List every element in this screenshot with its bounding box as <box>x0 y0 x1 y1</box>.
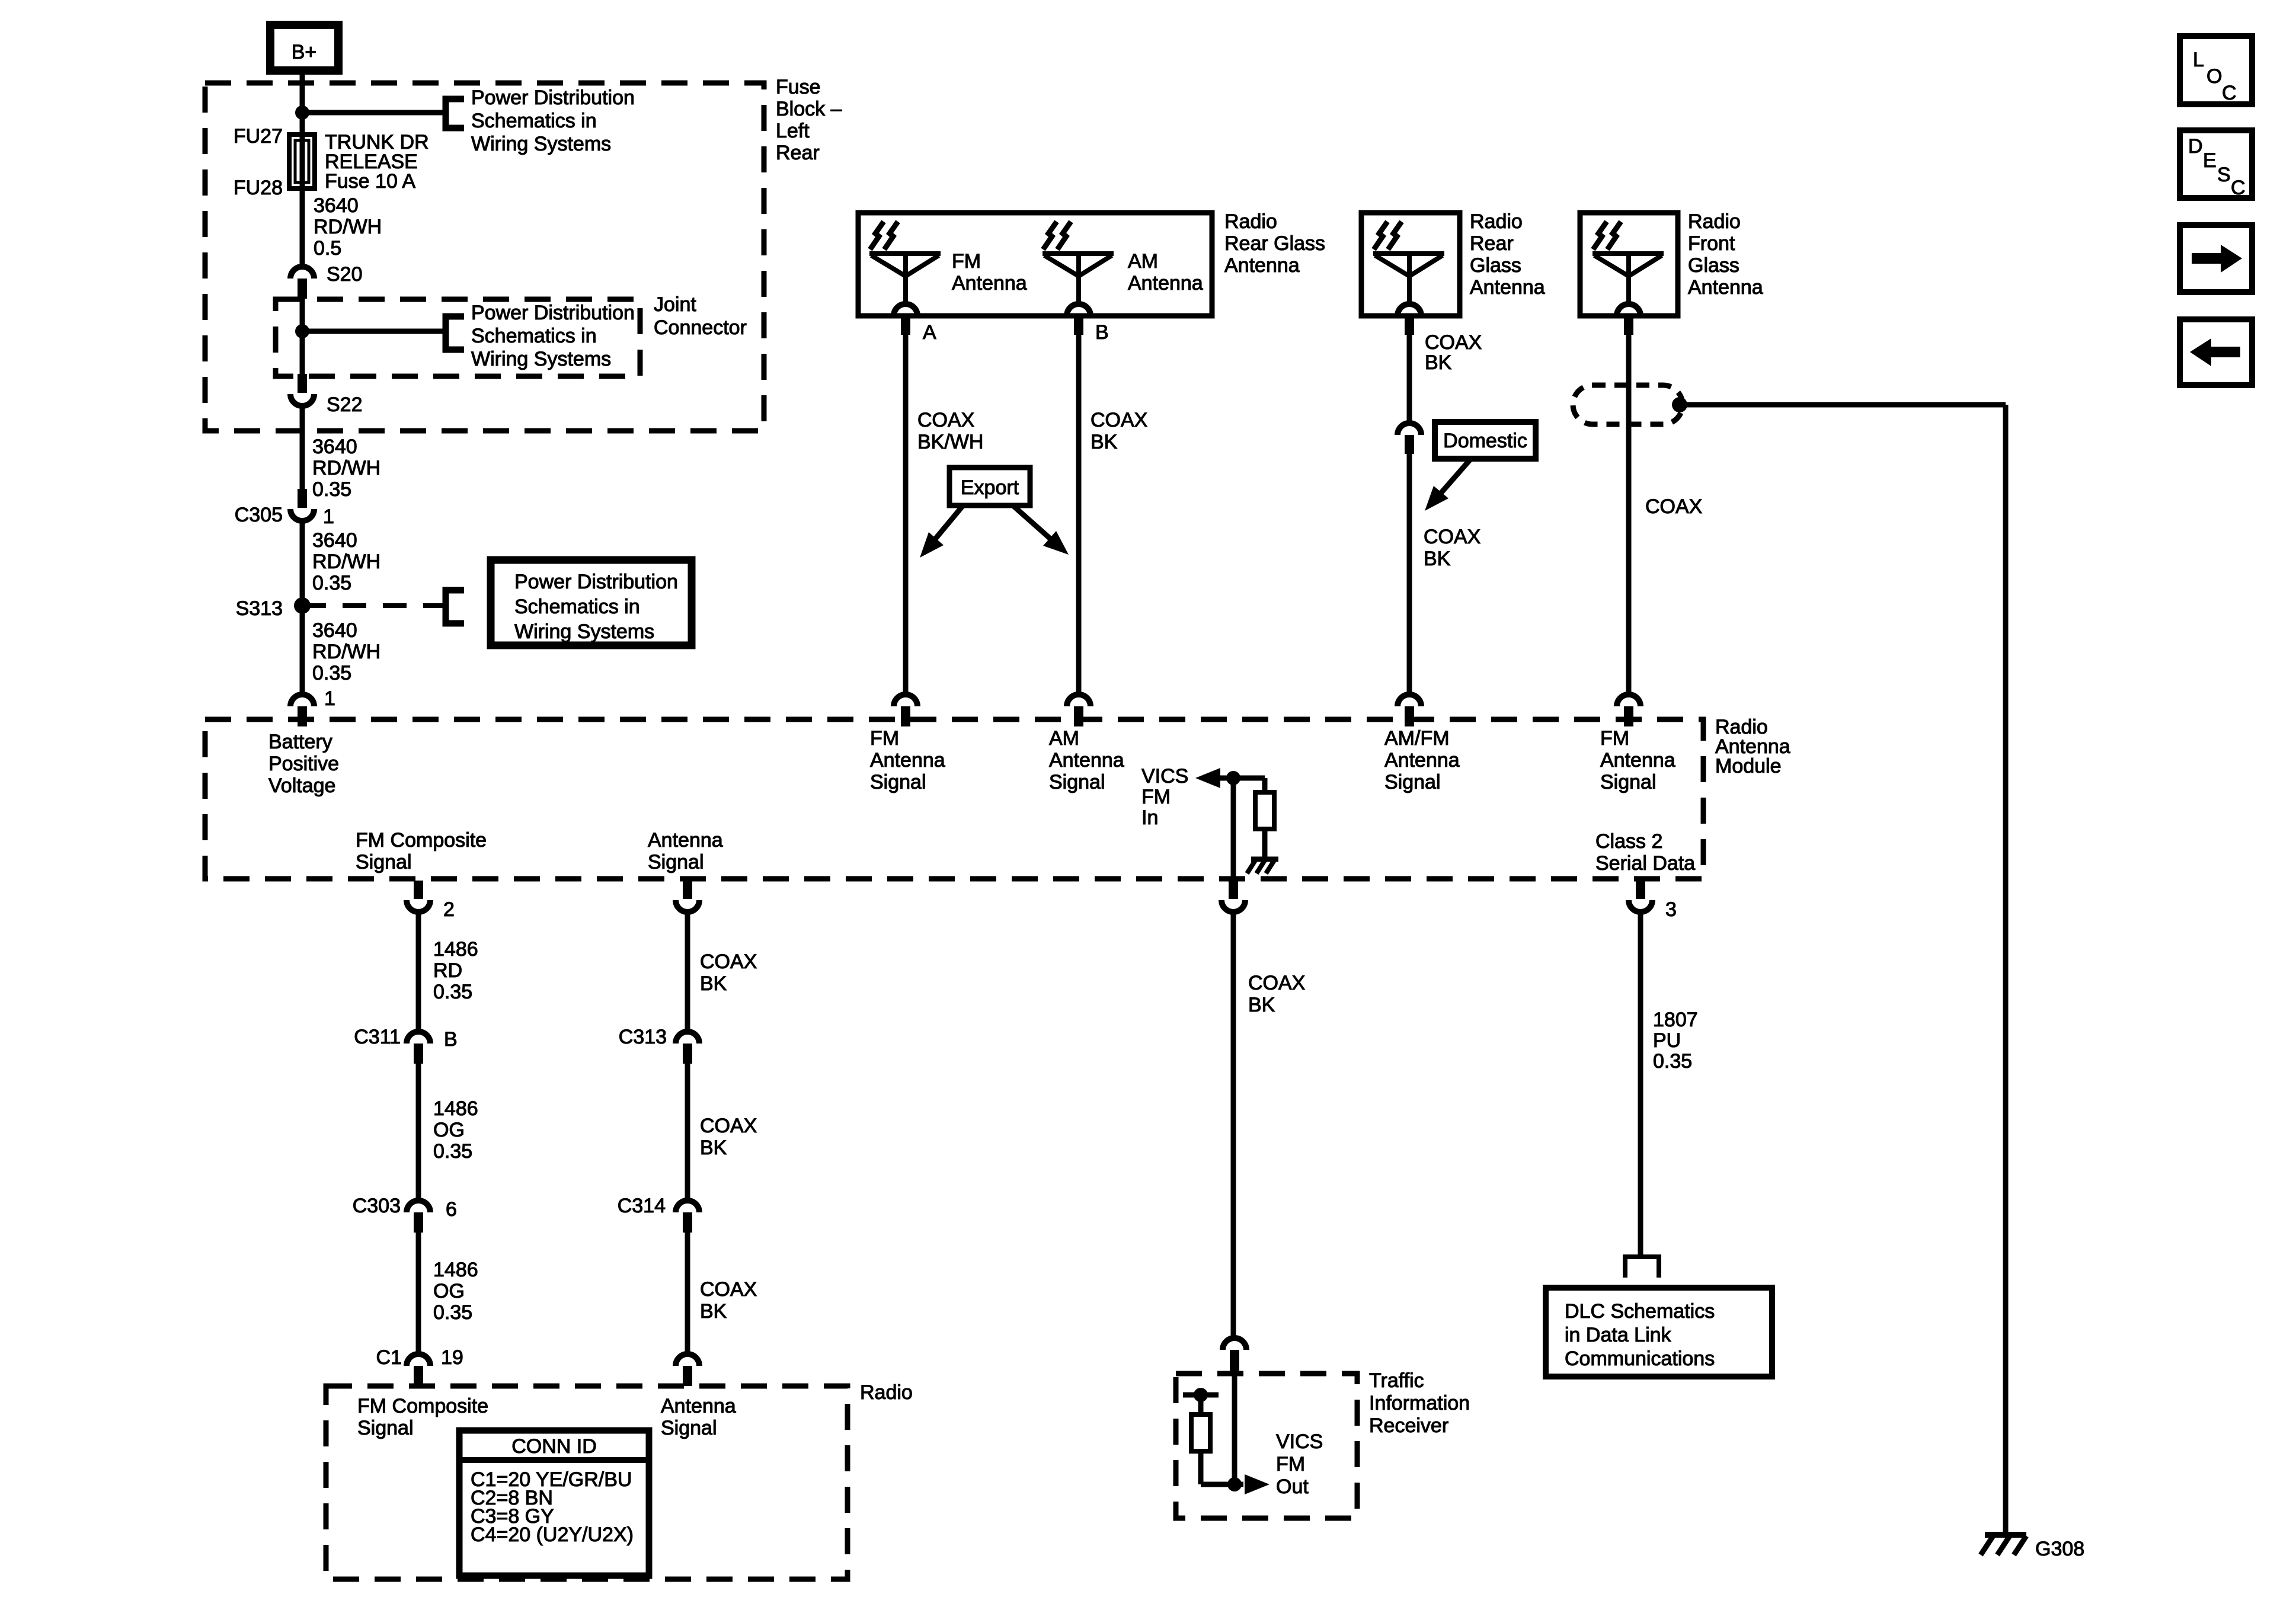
pin AM/FM antenna signal module <box>1398 694 1421 726</box>
wire C311 to C303 <box>416 1064 421 1201</box>
svg-text:S20: S20 <box>327 263 363 286</box>
arrow VICS FM In <box>1195 768 1265 788</box>
terminal B+ <box>270 25 338 71</box>
svg-text:FM Composite: FM Composite <box>356 829 487 852</box>
label pin A <box>923 321 936 344</box>
svg-text:FM: FM <box>1276 1453 1305 1475</box>
icon LOC <box>2180 36 2252 104</box>
svg-text:1486: 1486 <box>433 1097 478 1120</box>
export arrow left <box>920 505 963 558</box>
svg-text:3640: 3640 <box>314 194 359 217</box>
svg-text:1486: 1486 <box>433 938 478 961</box>
note Power Distribution Schematics in Wiring Systems 2 <box>471 302 635 370</box>
pin FM antenna signal module <box>894 694 917 726</box>
label FM Composite Signal module <box>356 829 487 873</box>
svg-text:Information: Information <box>1369 1392 1470 1414</box>
dashed connector oval <box>1573 385 1683 424</box>
svg-text:Power Distribution: Power Distribution <box>471 87 635 109</box>
svg-text:C1: C1 <box>376 1346 402 1369</box>
svg-text:BK/WH: BK/WH <box>917 431 983 453</box>
svg-text:0.35: 0.35 <box>312 572 351 594</box>
label AM Antenna Signal <box>1049 727 1124 793</box>
svg-text:Radio: Radio <box>1470 210 1523 233</box>
svg-text:Schematics in: Schematics in <box>471 325 597 347</box>
label C311 <box>354 1026 401 1048</box>
ground internal <box>1247 859 1278 873</box>
svg-text:FU28: FU28 <box>234 177 283 199</box>
svg-text:VICS: VICS <box>1141 765 1188 788</box>
label FM Composite Signal radio <box>357 1395 488 1439</box>
svg-text:Export: Export <box>961 476 1019 499</box>
svg-text:Antenna: Antenna <box>1128 272 1203 295</box>
label COAX BK am <box>1091 409 1147 453</box>
svg-text:Left: Left <box>776 120 810 142</box>
svg-text:Signal: Signal <box>870 771 926 793</box>
bracket power distribution 1 <box>446 99 464 128</box>
svg-text:FM: FM <box>1600 727 1629 750</box>
svg-text:Joint: Joint <box>654 293 696 316</box>
label pin B <box>1095 321 1109 344</box>
label Radio Antenna Module <box>1715 716 1790 777</box>
icon arrow left <box>2180 319 2252 385</box>
label Battery Positive Voltage <box>268 731 339 797</box>
svg-text:Signal: Signal <box>1384 771 1441 793</box>
svg-text:Radio: Radio <box>860 1381 913 1404</box>
wire to power distribution note <box>302 110 446 116</box>
svg-text:3640: 3640 <box>312 436 357 458</box>
svg-text:Antenna: Antenna <box>1224 254 1300 277</box>
label pin 1 C305 <box>323 505 334 528</box>
wire VICS node to pin <box>1231 778 1236 879</box>
wire pin2 to C311 <box>416 911 421 1032</box>
svg-text:0.35: 0.35 <box>433 1301 472 1324</box>
svg-text:C: C <box>2231 177 2246 199</box>
connector C311 <box>407 1032 430 1064</box>
label pin 3 <box>1665 898 1677 921</box>
splice domestic <box>1398 423 1421 454</box>
svg-text:1486: 1486 <box>433 1259 478 1281</box>
svg-text:AM: AM <box>1128 250 1158 273</box>
label pin 1 <box>324 687 335 710</box>
svg-text:E: E <box>2203 149 2217 172</box>
svg-text:Antenna: Antenna <box>1384 749 1460 772</box>
label S20 <box>327 263 363 286</box>
svg-text:Signal: Signal <box>356 851 412 873</box>
svg-text:Antenna: Antenna <box>1470 276 1545 299</box>
svg-text:Fuse 10 A: Fuse 10 A <box>325 170 415 193</box>
label COAX BK rear upper <box>1425 331 1482 374</box>
svg-text:0.35: 0.35 <box>312 478 351 501</box>
note Power Distribution Schematics in Wiring Systems 1 <box>471 87 635 155</box>
label COAX BK chain b <box>700 1115 757 1159</box>
wire label 1486 OG 0.35 b <box>433 1259 478 1324</box>
wire label 3640 RD/WH 0.35 c <box>312 619 380 684</box>
svg-text:0.35: 0.35 <box>433 981 472 1003</box>
svg-text:G308: G308 <box>2035 1538 2084 1560</box>
wire VICS node to resistor <box>1262 778 1268 792</box>
AM antenna symbol <box>1043 222 1114 335</box>
svg-text:0.5: 0.5 <box>314 237 341 260</box>
svg-text:RD/WH: RD/WH <box>312 550 380 573</box>
svg-text:Module: Module <box>1715 755 1782 777</box>
svg-text:C: C <box>2222 82 2237 104</box>
svg-text:RD/WH: RD/WH <box>314 216 382 238</box>
wire node to resistor <box>1198 1395 1204 1414</box>
label COAX BK chain a <box>700 950 757 995</box>
label C305 <box>235 504 283 526</box>
svg-text:2: 2 <box>443 898 455 921</box>
svg-text:C4=20 (U2Y/U2X): C4=20 (U2Y/U2X) <box>471 1523 634 1546</box>
label VICS FM Out <box>1276 1430 1323 1498</box>
tbar resistor top <box>1183 1393 1219 1398</box>
svg-text:Connector: Connector <box>654 316 747 339</box>
svg-text:C311: C311 <box>354 1026 401 1048</box>
junction node VICS <box>1226 771 1240 785</box>
svg-text:Glass: Glass <box>1688 254 1739 277</box>
label FM Antenna Signal left <box>870 727 945 793</box>
svg-text:Positive: Positive <box>268 753 339 775</box>
svg-text:Antenna: Antenna <box>1049 749 1124 772</box>
svg-text:PU: PU <box>1653 1029 1681 1052</box>
svg-text:Power Distribution: Power Distribution <box>471 302 635 324</box>
label Class 2 Serial Data <box>1595 830 1695 875</box>
svg-text:6: 6 <box>446 1198 457 1221</box>
svg-text:OG: OG <box>433 1280 465 1302</box>
svg-text:Power Distribution: Power Distribution <box>514 571 678 593</box>
antenna symbol front glass <box>1593 222 1664 335</box>
svg-text:in Data Link: in Data Link <box>1565 1324 1672 1346</box>
radio rear glass antenna box 2 <box>1361 213 1460 316</box>
svg-text:BK: BK <box>700 972 727 995</box>
svg-text:AM/FM: AM/FM <box>1384 727 1450 750</box>
label Radio <box>860 1381 913 1404</box>
svg-text:COAX: COAX <box>1645 495 1702 518</box>
label FM Antenna <box>952 250 1027 295</box>
svg-text:0.35: 0.35 <box>312 662 351 684</box>
pin 3 class 2 serial data <box>1629 881 1652 912</box>
svg-text:L: L <box>2193 49 2204 71</box>
svg-text:Wiring Systems: Wiring Systems <box>471 133 611 155</box>
svg-text:Radio: Radio <box>1688 210 1741 233</box>
svg-text:Antenna: Antenna <box>648 829 723 852</box>
svg-text:Antenna: Antenna <box>1600 749 1675 772</box>
pin 1 radio antenna module <box>290 694 314 726</box>
svg-text:0.35: 0.35 <box>1653 1050 1692 1073</box>
svg-text:BK: BK <box>700 1300 727 1323</box>
radio dashed box <box>326 1386 848 1579</box>
radio front glass antenna box <box>1580 213 1678 316</box>
svg-text:Out: Out <box>1276 1475 1309 1498</box>
svg-text:C313: C313 <box>619 1026 667 1048</box>
svg-text:Signal: Signal <box>1600 771 1657 793</box>
icon arrow right <box>2180 225 2252 292</box>
svg-text:3: 3 <box>1665 898 1677 921</box>
label pin B C311 <box>444 1028 458 1051</box>
radio rear glass antenna box FM AM <box>858 213 1212 316</box>
svg-text:D: D <box>2188 135 2203 158</box>
svg-text:Wiring Systems: Wiring Systems <box>514 620 654 643</box>
label C314 <box>618 1195 666 1217</box>
svg-text:COAX: COAX <box>700 1278 757 1301</box>
svg-text:Antenna: Antenna <box>952 272 1027 295</box>
label C313 <box>619 1026 667 1048</box>
svg-text:COAX: COAX <box>1091 409 1147 431</box>
joint connector dashed box <box>276 299 640 376</box>
label COAX front <box>1645 495 1702 518</box>
wire C305 to S313 <box>300 520 305 606</box>
svg-text:Voltage: Voltage <box>268 774 335 797</box>
wire rear glass antenna upper <box>1407 335 1412 423</box>
svg-text:Receiver: Receiver <box>1369 1414 1448 1437</box>
wire label 3640 RD/WH 0.5 <box>314 194 382 260</box>
svg-text:FM: FM <box>1141 786 1171 808</box>
label COAX BK rear lower <box>1424 526 1480 570</box>
fuse block dashed box <box>205 83 764 431</box>
svg-text:C314: C314 <box>618 1195 666 1217</box>
pin FM antenna signal right module <box>1617 694 1641 726</box>
svg-text:B: B <box>1095 321 1109 344</box>
wire out horizontal <box>1201 1482 1243 1487</box>
svg-text:DLC Schematics: DLC Schematics <box>1565 1300 1715 1323</box>
svg-text:FM: FM <box>952 250 981 273</box>
wire label 1486 OG 0.35 a <box>433 1097 478 1163</box>
radio antenna module dashed box <box>205 719 1703 879</box>
junction node joint connector <box>295 324 309 338</box>
svg-text:Rear Glass: Rear Glass <box>1224 232 1325 255</box>
wire S22 to C305 <box>300 405 305 490</box>
wire rear glass antenna lower <box>1407 454 1412 694</box>
wire C314 to radio <box>685 1233 690 1354</box>
svg-text:Signal: Signal <box>648 851 704 873</box>
svg-text:BK: BK <box>1248 994 1275 1016</box>
svg-text:AM: AM <box>1049 727 1079 750</box>
wire label 3640 RD/WH 0.35 a <box>312 436 380 501</box>
connector traffic receiver <box>1223 1338 1246 1372</box>
wire VICS to traffic receiver <box>1231 911 1236 1338</box>
label VICS FM In <box>1141 765 1188 829</box>
svg-text:19: 19 <box>441 1346 463 1369</box>
svg-text:COAX: COAX <box>917 409 974 431</box>
svg-text:O: O <box>2207 65 2222 88</box>
domestic box <box>1435 422 1536 459</box>
wire label 3640 RD/WH 0.35 b <box>312 529 380 594</box>
connector C313 <box>676 1032 699 1064</box>
svg-text:Communications: Communications <box>1565 1347 1715 1370</box>
wire C303 to C1 <box>416 1233 421 1354</box>
label COAX BK vics <box>1248 972 1305 1016</box>
svg-text:BK: BK <box>1424 548 1451 570</box>
bracket power distribution 3 <box>446 590 464 623</box>
label S22 <box>327 393 363 416</box>
svg-text:Schematics in: Schematics in <box>471 110 597 132</box>
wire traffic main <box>1232 1372 1237 1484</box>
label COAX BK/WH <box>917 409 983 453</box>
svg-text:Block –: Block – <box>776 98 842 120</box>
resistor traffic receiver <box>1191 1414 1210 1451</box>
splice S22 <box>290 374 314 406</box>
dashed wire S313 to note <box>302 603 446 608</box>
svg-text:Domestic: Domestic <box>1443 430 1527 452</box>
label pin 19 C1 <box>441 1346 463 1369</box>
label Radio Rear Glass Antenna 2 <box>1470 210 1545 299</box>
wire right side down to ground <box>2003 405 2009 1535</box>
svg-text:Antenna: Antenna <box>870 749 945 772</box>
pin AM antenna signal module <box>1067 694 1091 726</box>
svg-text:Antenna: Antenna <box>1688 276 1763 299</box>
svg-text:Battery: Battery <box>268 731 332 753</box>
export box <box>949 468 1030 505</box>
wire pin3 to DLC <box>1638 911 1643 1257</box>
svg-text:RD/WH: RD/WH <box>312 641 380 663</box>
label Antenna Signal radio <box>661 1395 736 1439</box>
svg-text:3640: 3640 <box>312 529 357 552</box>
svg-text:Serial Data: Serial Data <box>1595 852 1695 875</box>
wire label 1807 PU 0.35 <box>1653 1009 1698 1073</box>
svg-text:FM: FM <box>870 727 899 750</box>
svg-text:COAX: COAX <box>1248 972 1305 994</box>
label FU28 <box>234 177 283 199</box>
svg-text:S22: S22 <box>327 393 363 416</box>
label TRUNK DR RELEASE Fuse 10 A <box>325 131 429 193</box>
arrow VICS FM Out <box>1245 1474 1269 1494</box>
svg-text:C303: C303 <box>353 1195 401 1217</box>
domestic arrow <box>1425 459 1471 511</box>
bracket power distribution 2 <box>446 316 464 350</box>
label S313 <box>236 597 283 620</box>
svg-text:BK: BK <box>1091 431 1118 453</box>
svg-text:1: 1 <box>324 687 335 710</box>
label FM Antenna Signal right <box>1600 727 1675 793</box>
connector C314 <box>676 1201 699 1233</box>
label Radio Rear Glass Antenna 1 <box>1224 210 1325 277</box>
svg-text:Fuse: Fuse <box>776 76 821 98</box>
svg-text:COAX: COAX <box>1424 526 1480 548</box>
svg-text:1: 1 <box>323 505 334 528</box>
export arrow right <box>1013 505 1069 555</box>
wire resistor to ground <box>1262 829 1268 859</box>
wire to power distribution note 2 <box>302 329 446 334</box>
svg-text:Antenna: Antenna <box>661 1395 736 1417</box>
label G308 <box>2035 1538 2084 1560</box>
label pin 6 C303 <box>446 1198 457 1221</box>
ground G308 <box>1981 1535 2026 1555</box>
svg-text:COAX: COAX <box>700 950 757 973</box>
pin VICS FM bottom <box>1221 881 1245 912</box>
svg-text:Class 2: Class 2 <box>1595 830 1662 853</box>
FM antenna symbol <box>869 222 941 335</box>
label Antenna Signal module <box>648 829 723 873</box>
svg-text:S313: S313 <box>236 597 283 620</box>
svg-text:0.35: 0.35 <box>433 1140 472 1163</box>
label C303 <box>353 1195 401 1217</box>
note box DLC Schematics in Data Link Communications <box>1546 1288 1772 1377</box>
splice S20 <box>290 267 314 299</box>
junction node out <box>1227 1477 1242 1491</box>
svg-text:Wiring Systems: Wiring Systems <box>471 348 611 370</box>
splice S313 <box>294 597 311 614</box>
wire B+ to fuse FU27 <box>300 71 305 267</box>
connector C303 <box>407 1201 430 1233</box>
svg-text:S: S <box>2217 164 2231 186</box>
label FU27 <box>234 125 283 148</box>
label pin 2 <box>443 898 455 921</box>
label AM/FM Antenna Signal <box>1384 727 1460 793</box>
svg-text:In: In <box>1141 806 1158 829</box>
wire S313 to pin 1 <box>300 606 305 694</box>
wire label 1486 RD 0.35 <box>433 938 478 1003</box>
pin antenna signal radio <box>676 1354 699 1386</box>
antenna symbol rear glass <box>1373 222 1444 335</box>
svg-text:VICS: VICS <box>1276 1430 1323 1453</box>
fuse FU27-FU28 TRUNK DR RELEASE Fuse 10 A <box>289 135 315 188</box>
svg-text:B+: B+ <box>292 41 317 63</box>
svg-text:CONN ID: CONN ID <box>511 1435 597 1458</box>
svg-text:1807: 1807 <box>1653 1009 1698 1031</box>
pin 2 FM composite signal <box>407 881 430 912</box>
svg-text:C305: C305 <box>235 504 283 526</box>
svg-text:Front: Front <box>1688 232 1735 255</box>
svg-text:COAX: COAX <box>1425 331 1482 354</box>
svg-text:Signal: Signal <box>1049 771 1105 793</box>
svg-text:BK: BK <box>1425 351 1452 374</box>
wire antsig to C313 <box>685 911 690 1032</box>
svg-text:Signal: Signal <box>661 1417 717 1439</box>
label Joint Connector <box>654 293 747 339</box>
conn id table <box>459 1430 649 1576</box>
resistor VICS FM In <box>1255 792 1274 829</box>
label Fuse Block Left Rear <box>776 76 842 164</box>
label AM Antenna <box>1128 250 1203 295</box>
svg-text:A: A <box>923 321 936 344</box>
svg-text:Traffic: Traffic <box>1369 1369 1424 1392</box>
junction node <box>295 105 309 120</box>
pin antenna signal bottom <box>676 881 699 912</box>
connector C1 <box>407 1354 430 1386</box>
traffic receiver dashed box <box>1176 1374 1357 1518</box>
svg-text:Rear: Rear <box>1470 232 1514 255</box>
svg-text:B: B <box>444 1028 458 1051</box>
svg-text:BK: BK <box>700 1137 727 1159</box>
label COAX BK chain c <box>700 1278 757 1323</box>
svg-text:OG: OG <box>433 1119 465 1141</box>
junction node oval <box>1672 397 1687 412</box>
wire resistor to out <box>1198 1451 1204 1484</box>
wire C313 to C314 <box>685 1064 690 1201</box>
svg-text:3640: 3640 <box>312 619 357 642</box>
junction node resistor top <box>1194 1388 1208 1402</box>
wire AM antenna to module <box>1076 335 1082 694</box>
svg-text:FM Composite: FM Composite <box>357 1395 488 1417</box>
label C1 <box>376 1346 402 1369</box>
wire front glass antenna <box>1626 335 1632 694</box>
svg-text:Glass: Glass <box>1470 254 1521 277</box>
wire FM antenna to module <box>903 335 909 694</box>
svg-text:FU27: FU27 <box>234 125 283 148</box>
note box Power Distribution Schematics in Wiring Systems 3 <box>491 560 692 645</box>
svg-text:Radio: Radio <box>1224 210 1277 233</box>
svg-text:RD: RD <box>433 959 462 982</box>
connector C305 <box>290 489 314 521</box>
label Radio Front Glass Antenna <box>1688 210 1763 299</box>
icon DESC <box>2180 130 2252 199</box>
svg-text:Rear: Rear <box>776 142 820 164</box>
svg-text:Schematics in: Schematics in <box>514 596 640 618</box>
svg-text:COAX: COAX <box>700 1115 757 1137</box>
label Traffic Information Receiver <box>1369 1369 1470 1437</box>
connector DLC bracket <box>1625 1257 1659 1278</box>
svg-text:Signal: Signal <box>357 1417 414 1439</box>
wire S20 to S22 <box>300 299 305 375</box>
